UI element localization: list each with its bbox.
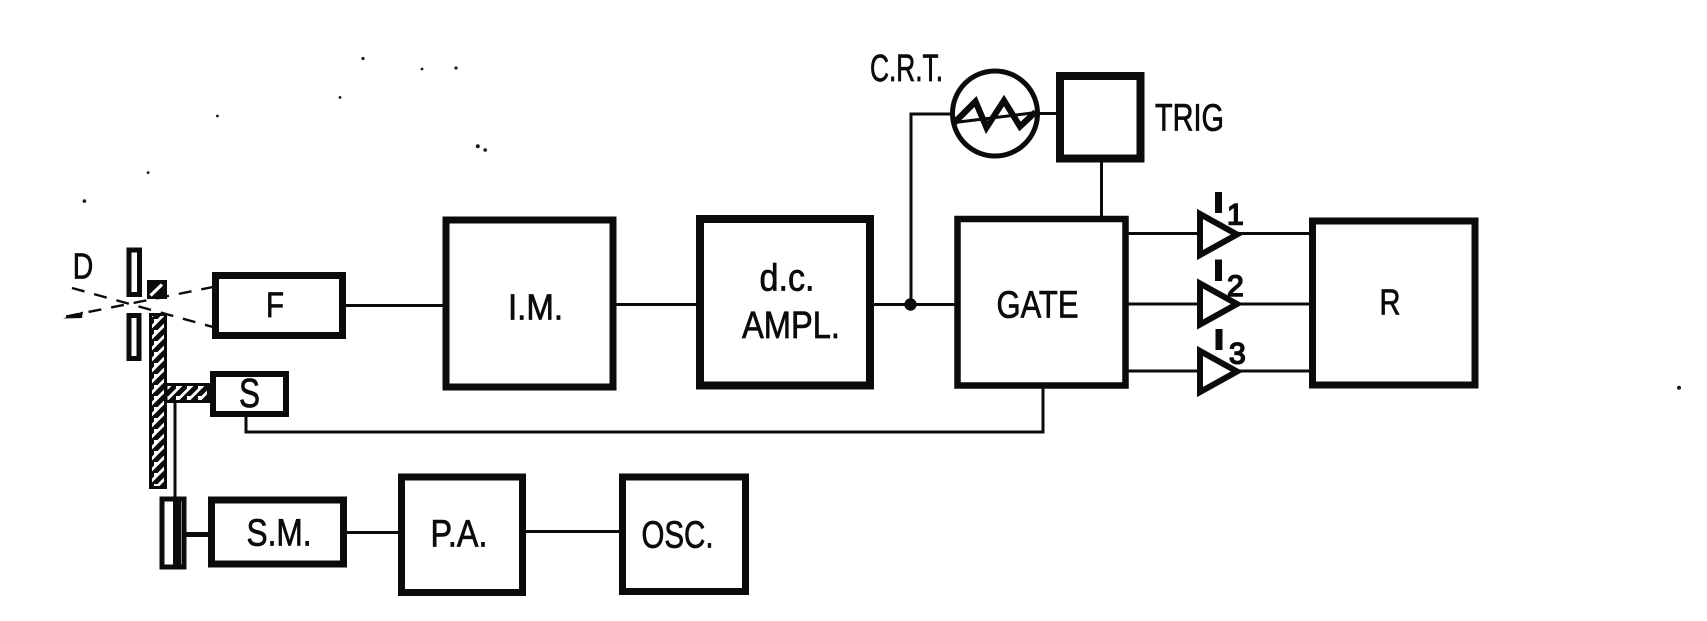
wire S.M. to P.A. — [345, 531, 403, 534]
amplifier triangle 2 — [1200, 284, 1237, 325]
chord wire through circle — [955, 113, 1037, 123]
wire amp 2 to R — [1236, 303, 1311, 306]
box OSC. — [623, 477, 746, 592]
wire GATE bottom to S — [246, 387, 1043, 432]
wire d.c. AMPL. to GATE — [871, 303, 957, 306]
beam arrowhead — [63, 312, 83, 319]
wire amp 1 to R — [1236, 232, 1311, 235]
junction node — [904, 298, 916, 310]
chopper vertical bar (hatched) — [151, 315, 166, 488]
wire TRIG to GATE — [1100, 160, 1103, 218]
svg-text:R: R — [1380, 282, 1401, 323]
svg-text:S.M.: S.M. — [247, 513, 312, 555]
wire I.M. to d.c. AMPL. — [614, 303, 700, 306]
wire amp 3 to R — [1236, 370, 1311, 373]
svg-text:1: 1 — [1227, 199, 1244, 232]
slit plate upper — [129, 250, 140, 295]
wire transducer to S.M. — [185, 532, 212, 537]
wire GATE to amp 3 — [1126, 370, 1199, 373]
svg-text:TRIG: TRIG — [1155, 98, 1224, 140]
svg-text:F: F — [266, 286, 284, 325]
link wire chopper to transducer — [174, 402, 177, 498]
box d.c. AMPL. — [700, 219, 870, 386]
box P.A. — [402, 477, 523, 593]
slit plate lower — [129, 316, 139, 359]
svg-text:3: 3 — [1229, 338, 1246, 371]
wire F to I.M. — [344, 304, 445, 307]
box GATE — [958, 219, 1126, 386]
label I3 — [1216, 329, 1223, 350]
box S — [213, 374, 286, 414]
svg-text:AMPL.: AMPL. — [742, 305, 840, 347]
sawtooth wave — [955, 101, 1036, 128]
svg-text:GATE: GATE — [997, 285, 1079, 327]
wire P.A. to OSC. — [524, 530, 622, 533]
transducer double-plate — [162, 499, 184, 567]
amplifier triangle 1 — [1200, 214, 1237, 255]
box S.M. — [212, 500, 344, 564]
detector element — [147, 280, 167, 299]
svg-text:C.R.T.: C.R.T. — [870, 48, 943, 90]
amplifier triangle 3 — [1200, 351, 1237, 392]
chopper horizontal arm (hatched) — [166, 385, 209, 402]
C.R.T. circle (sweep generator) — [953, 71, 1038, 156]
svg-text:P.A.: P.A. — [431, 514, 488, 556]
svg-text:d.c.: d.c. — [760, 258, 815, 300]
box R — [1313, 221, 1476, 385]
beam ray dashed line (upper-left to lower-right) — [72, 288, 213, 327]
box I.M. — [446, 220, 613, 387]
box TRIG — [1060, 76, 1141, 159]
svg-text:I.M.: I.M. — [508, 287, 563, 328]
box F — [216, 276, 343, 336]
wire circle to TRIG — [1037, 112, 1058, 115]
label I1 — [1215, 192, 1222, 213]
svg-text:D: D — [73, 246, 94, 287]
svg-text:S: S — [239, 370, 260, 416]
wire junction up to C.R.T. — [911, 114, 952, 305]
wire GATE to amp 2 — [1126, 303, 1199, 306]
svg-text:2: 2 — [1227, 270, 1244, 303]
wire GATE to amp 1 — [1126, 232, 1199, 235]
svg-text:OSC.: OSC. — [642, 515, 714, 557]
label I2 — [1215, 260, 1222, 282]
beam ray dashed line (lower-left to upper-right) — [66, 287, 213, 317]
